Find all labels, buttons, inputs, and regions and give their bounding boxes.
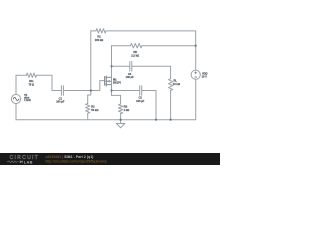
svg-text:R2: R2 — [91, 104, 95, 108]
svg-text:LAB: LAB — [24, 159, 33, 164]
voltage source VDD — [191, 70, 200, 79]
svg-text:100 µF: 100 µF — [136, 99, 145, 103]
svg-text:100 kΩ: 100 kΩ — [95, 38, 104, 42]
resistor R1 — [96, 29, 106, 33]
resistor RL — [169, 79, 173, 91]
wire Rin to C1 — [37, 75, 62, 90]
wire drain to C3 — [112, 65, 130, 67]
VDD minus sign — [195, 76, 197, 78]
svg-text:75 Ω: 75 Ω — [28, 82, 35, 86]
V1 sine symbol — [13, 97, 19, 100]
resistor RS — [119, 104, 123, 114]
svg-text:http://circuitlab.com/c/dpu/29: http://circuitlab.com/c/dpu/29f5a3e/amp — [46, 160, 107, 164]
svg-text:10 V: 10 V — [202, 74, 208, 78]
resistor RD — [131, 44, 143, 48]
wire VDD top — [195, 46, 197, 70]
capacitor C3 — [130, 62, 132, 72]
wire RD to VDD node — [142, 45, 196, 47]
junction node C2-ground rail — [155, 119, 157, 121]
wire source down to RS — [112, 95, 121, 104]
junction node gate — [90, 90, 92, 92]
ground rail — [16, 119, 196, 121]
wire source to C2 — [112, 90, 140, 92]
wire gate node down to R2 — [88, 91, 91, 104]
svg-text:2.2 kΩ: 2.2 kΩ — [131, 53, 140, 57]
capacitor C2 — [140, 86, 142, 96]
wire R2 to ground rail — [87, 113, 89, 119]
resistor Rin — [26, 73, 36, 77]
svg-text:BS170: BS170 — [113, 81, 121, 85]
voltage source V1 — [11, 94, 20, 103]
svg-text:10 kΩ: 10 kΩ — [173, 82, 181, 86]
svg-text:100 µF: 100 µF — [56, 100, 65, 104]
wire VDD bottom to ground rail — [195, 79, 197, 119]
wire gate node up to R1 — [91, 31, 96, 91]
wire R1 to top right corner — [106, 31, 196, 46]
CircuitLab logo wordmark — [7, 155, 39, 164]
wire RL to ground rail — [170, 91, 172, 120]
wire C2 to ground rail — [142, 91, 156, 120]
mosfet M1 channel bar connectors — [106, 77, 111, 84]
ground symbol — [116, 120, 125, 128]
svg-text:1 kΩ: 1 kΩ — [124, 108, 131, 112]
wire drain/source vertical — [111, 46, 113, 96]
wire RD rail — [112, 45, 131, 47]
footer bar — [0, 153, 220, 165]
resistor R2 — [86, 104, 90, 114]
wire V1 top to Rin — [16, 75, 26, 94]
wire gate node to M1 gate — [91, 81, 105, 91]
svg-text:50 kΩ: 50 kΩ — [91, 108, 99, 112]
wire C1 to gate node — [63, 90, 90, 92]
mosfet M1 gate bar — [104, 77, 106, 86]
capacitor C1 — [61, 86, 63, 96]
junction node RL-ground rail — [170, 119, 172, 121]
VDD plus sign — [195, 72, 197, 74]
mosfet M1 body arrow — [107, 80, 109, 82]
mosfet M1 channel segment ticks — [105, 76, 107, 86]
junction node VDD-RD — [195, 45, 197, 47]
footer attribution text — [46, 155, 107, 164]
wire V1 bottom — [15, 104, 17, 120]
wire C3 to RL — [132, 66, 171, 78]
junction node source-C2 — [111, 90, 113, 92]
svg-text:100 pF: 100 pF — [126, 75, 135, 79]
junction node drain-C3 — [111, 65, 113, 67]
svg-text:cd530683 | SIM2 - Part 2 (q1): cd530683 | SIM2 - Part 2 (q1) — [46, 155, 94, 159]
junction node RS-ground rail — [120, 119, 122, 121]
svg-text:1 kHz: 1 kHz — [24, 98, 31, 102]
wire RS to ground rail — [120, 114, 122, 120]
logo diode triangle — [20, 160, 23, 163]
logo resistor squiggle — [7, 161, 19, 163]
